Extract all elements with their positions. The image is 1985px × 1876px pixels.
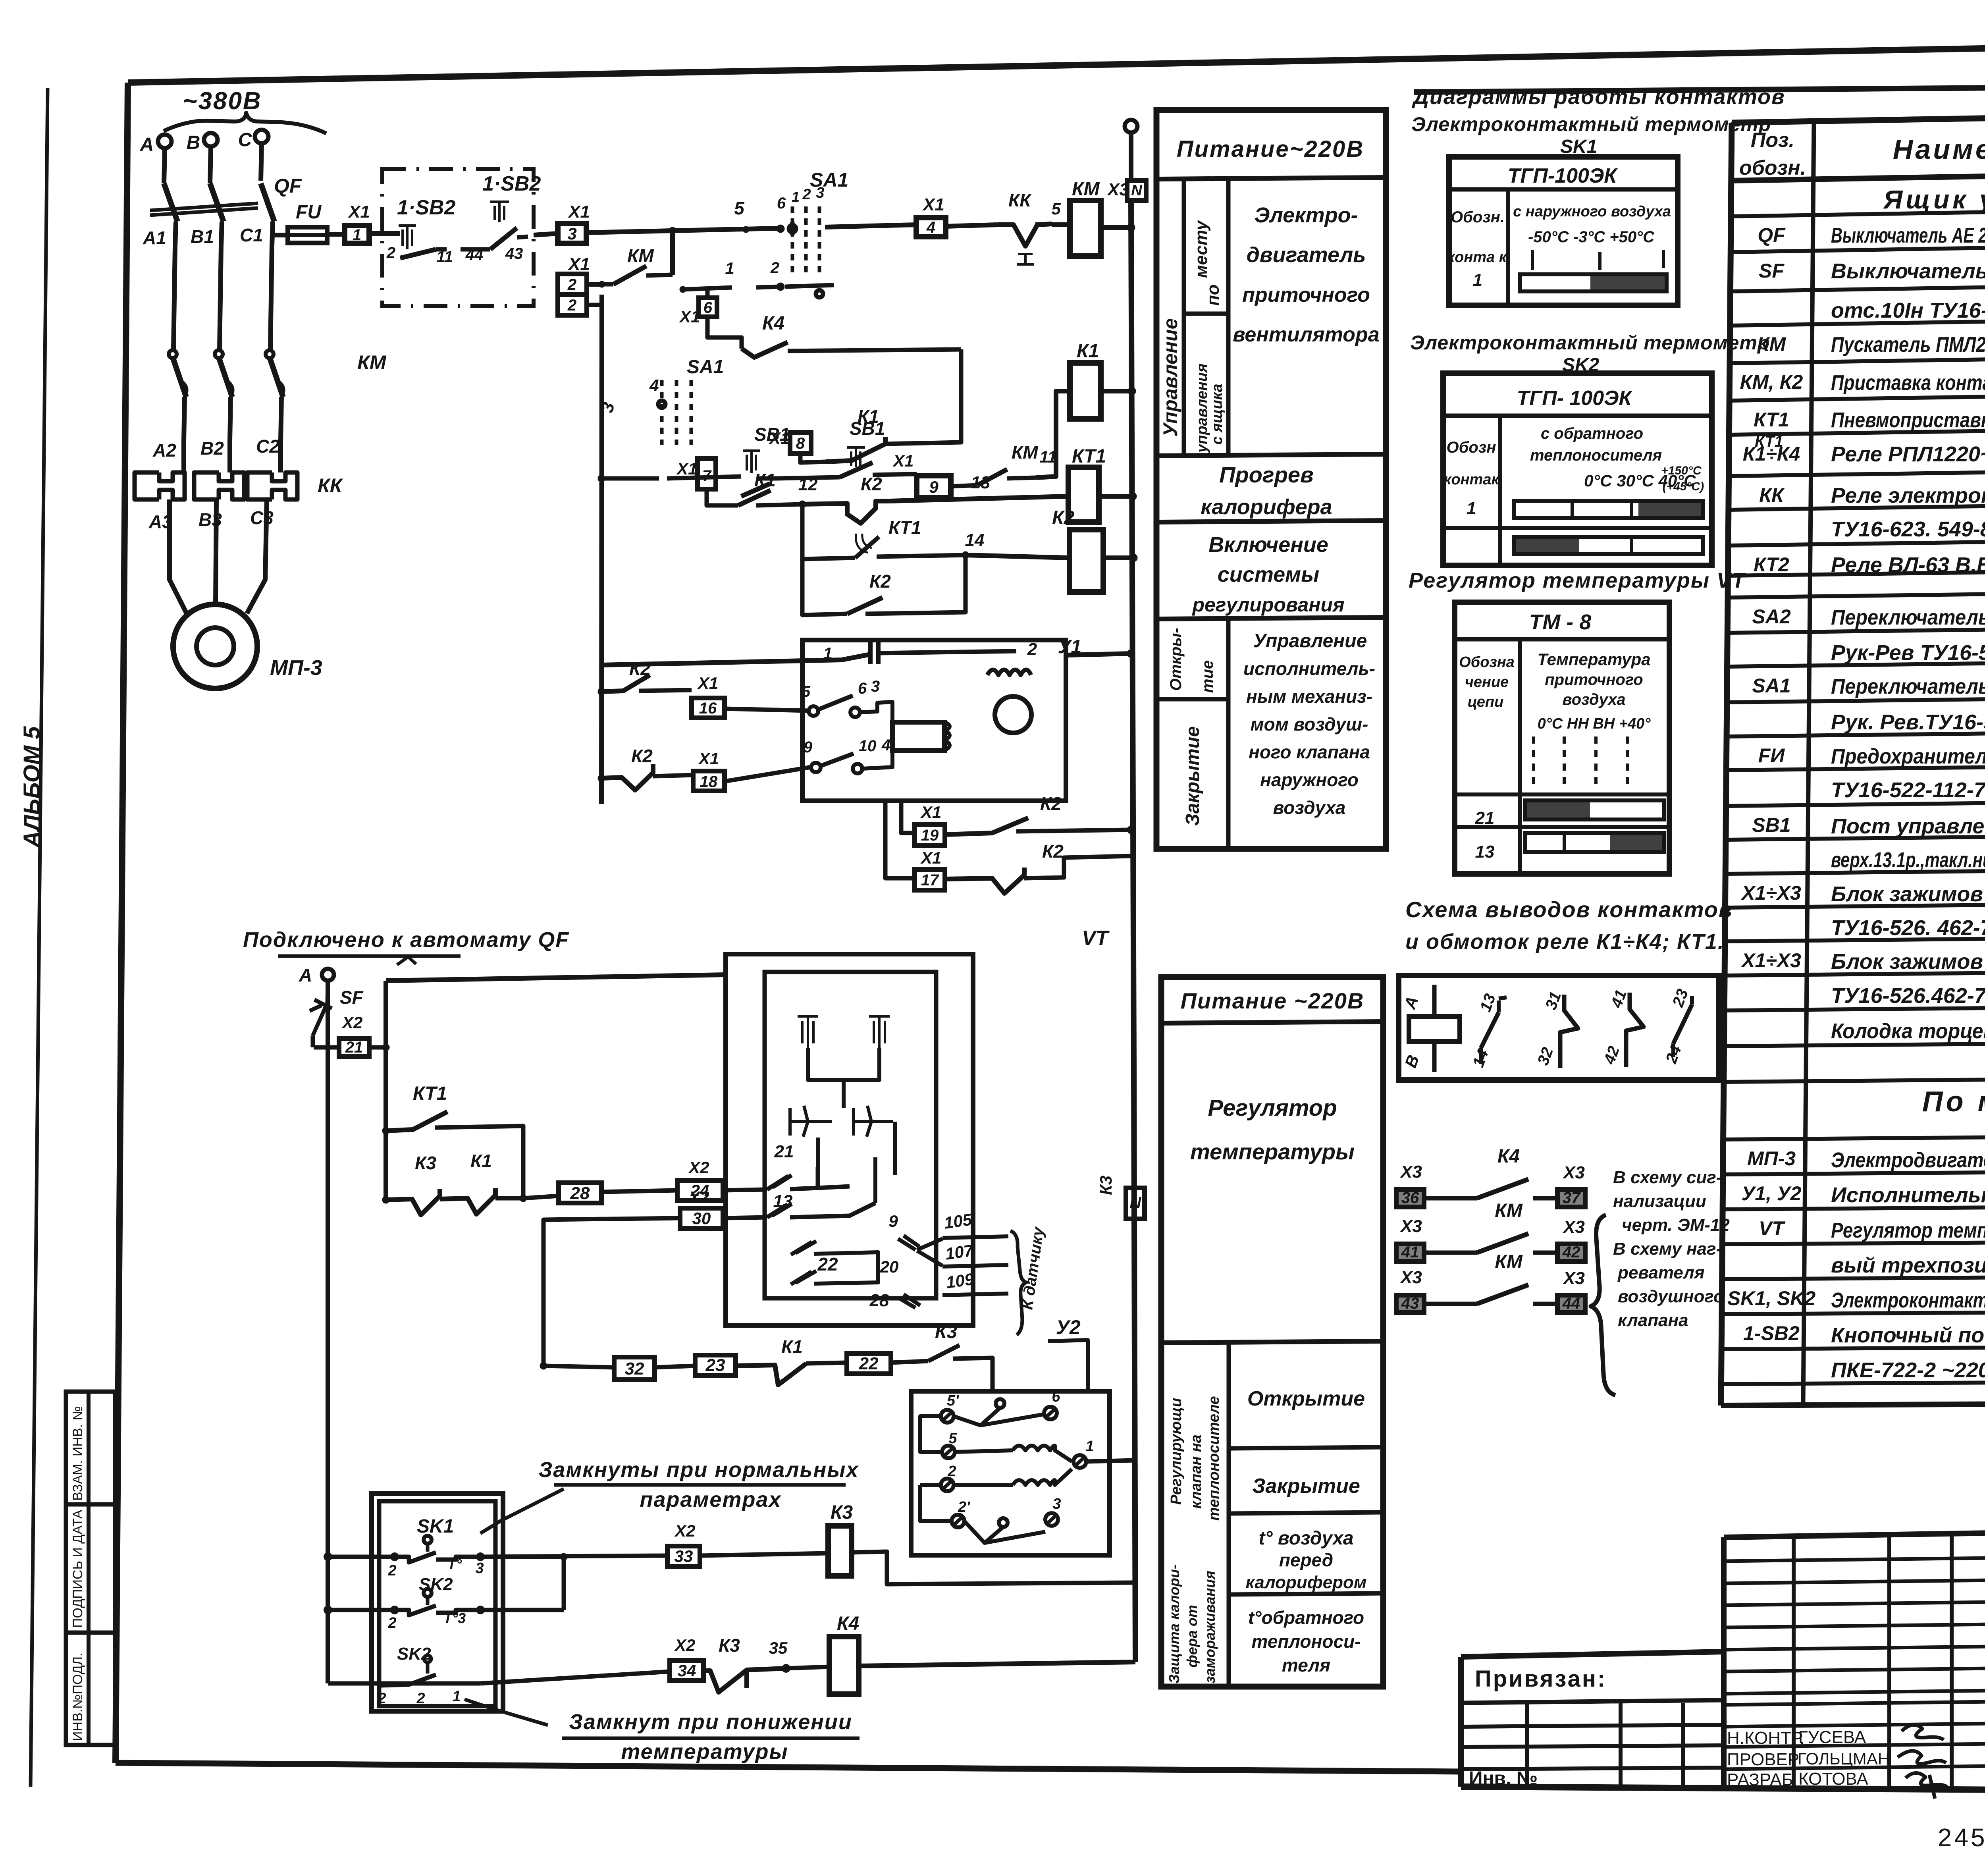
wire FU to X1-1 xyxy=(327,232,345,237)
ft2 header питание xyxy=(1161,1022,1383,1023)
KK heater 1 xyxy=(135,472,185,499)
svg-text:Пневмоприставка ПВЛ110ЧТУ16-52: Пневмоприставка ПВЛ110ЧТУ16-526.437-78 xyxy=(1831,408,1985,432)
N bus lower vertical xyxy=(1134,1068,1135,1662)
svg-text:2: 2 xyxy=(802,186,811,203)
SA1 upper dashed poles xyxy=(791,206,794,278)
ft1 внутренние колонки xyxy=(1182,179,1186,456)
svg-text:К1: К1 xyxy=(754,470,776,490)
svg-text:ТУ16-526. 462-79: ТУ16-526. 462-79 xyxy=(1831,916,1985,940)
svg-text:ным механиз-: ным механиз- xyxy=(1246,686,1372,707)
frame border top xyxy=(128,38,1985,83)
svg-text:КТ1: КТ1 xyxy=(1754,409,1789,431)
QF pole blade 1 xyxy=(164,183,177,222)
svg-text:К3: К3 xyxy=(415,1153,436,1173)
KM pole 2 xyxy=(215,350,223,358)
svg-text:ТУ16-526.462-79: ТУ16-526.462-79 xyxy=(1831,984,1985,1008)
svg-text:Колодка торцевая КТ5УТУ16-526.: Колодка торцевая КТ5УТУ16-526.462-79 xyxy=(1831,1019,1985,1043)
svg-text:X1: X1 xyxy=(676,459,697,478)
TM8 row 21 xyxy=(1455,792,1669,796)
svg-text:Электроконтактный термометр ТГ: Электроконтактный термометр ТГП-100эк xyxy=(1831,1288,1985,1312)
stamp box ИНВ.№ПОДЛ xyxy=(66,1633,115,1745)
svg-text:Температура: Температура xyxy=(1537,650,1650,669)
svg-text:ПРОВЕР: ПРОВЕР xyxy=(1727,1750,1799,1769)
wire and contact xyxy=(1424,1251,1477,1255)
start button SB2 (NO push) xyxy=(490,202,509,222)
svg-text:У2: У2 xyxy=(1056,1316,1081,1338)
title annex columns xyxy=(1525,1703,1529,1787)
wire SK2 bottom row to X2-34 xyxy=(328,1681,480,1686)
SA1L pole 1667 xyxy=(660,380,664,445)
svg-text:В2: В2 xyxy=(200,438,224,459)
svg-text:КК: КК xyxy=(318,474,343,497)
svg-text:Диаграммы работы контактов: Диаграммы работы контактов xyxy=(1412,85,1785,109)
KM pole 3 xyxy=(266,350,274,358)
svg-text:X1÷X3: X1÷X3 xyxy=(1740,949,1801,972)
wire phase C mid xyxy=(270,246,272,349)
Y1 switch 5-6 xyxy=(809,706,818,716)
svg-text:1: 1 xyxy=(452,1688,461,1705)
svg-text:43: 43 xyxy=(505,245,523,262)
svg-text:наружного: наружного xyxy=(1260,769,1359,790)
svg-text:8: 8 xyxy=(796,435,805,452)
box 22 xyxy=(806,1363,847,1363)
svg-text:А2: А2 xyxy=(152,440,176,461)
svg-text:К1: К1 xyxy=(470,1151,492,1171)
SA1L pole 1704 xyxy=(675,380,678,445)
Y2 winding 1 xyxy=(955,1446,1072,1461)
svg-text:42: 42 xyxy=(1562,1244,1580,1261)
svg-text:t° воздуха: t° воздуха xyxy=(1258,1528,1353,1549)
K3 coil to N bus xyxy=(852,1552,1135,1584)
svg-text:2: 2 xyxy=(1027,640,1037,659)
Y1 bottom branch to X1-19 xyxy=(901,801,915,833)
node and riser x=972 xyxy=(369,1045,386,1050)
stamp box ВЗАМ.ИНВ.№ xyxy=(66,1392,115,1504)
svg-text:В схему наг-: В схему наг- xyxy=(1613,1239,1722,1259)
leader line to SK box xyxy=(480,1489,564,1533)
wire phase B lower xyxy=(216,499,216,605)
svg-text:приточного: приточного xyxy=(1545,671,1643,688)
svg-text:КМ: КМ xyxy=(1072,179,1100,200)
frame border bottom left part xyxy=(116,1763,1462,1772)
svg-text:воздуха: воздуха xyxy=(1563,691,1626,708)
svg-text:32: 32 xyxy=(625,1359,644,1379)
svg-text:SK1, SK2: SK1, SK2 xyxy=(1727,1287,1816,1309)
svg-text:КТ1: КТ1 xyxy=(1755,433,1783,450)
ft2 left column xyxy=(1227,1343,1231,1687)
VT outer block xyxy=(726,954,973,1325)
svg-text:Откры-: Откры- xyxy=(1167,628,1185,691)
SK1 scale ticks xyxy=(1531,250,1534,270)
box 32 xyxy=(614,1357,655,1380)
svg-text:калорифера: калорифера xyxy=(1201,495,1332,519)
svg-text:МП-3: МП-3 xyxy=(1747,1147,1796,1170)
left bus A down to SK rows xyxy=(326,981,330,1683)
SK2 contact mid xyxy=(391,1607,398,1613)
svg-text:N: N xyxy=(1131,182,1143,199)
VT inner block xyxy=(765,972,936,1298)
title block signature columns xyxy=(1792,1537,1796,1787)
svg-text:22: 22 xyxy=(859,1354,879,1373)
ft1 Включение системы регулирования xyxy=(1156,617,1386,619)
wire X1-6 to K4 xyxy=(707,317,742,349)
svg-text:2: 2 xyxy=(770,259,779,277)
diagram box SK2 xyxy=(1443,373,1712,565)
svg-text:АЛЬБОМ 5: АЛЬБОМ 5 xyxy=(19,726,45,848)
svg-text:температуры: температуры xyxy=(1190,1139,1355,1164)
svg-text:Кнопочный пост управления: Кнопочный пост управления xyxy=(1831,1323,1985,1347)
svg-text:В1: В1 xyxy=(191,226,214,247)
wire X1-1 to button box xyxy=(369,231,400,236)
SK2 mid out riser xyxy=(480,1608,564,1612)
node after X1-3 xyxy=(586,231,673,233)
wire 14 to K2 coil xyxy=(966,555,1070,558)
svg-text:ТМ - 8: ТМ - 8 xyxy=(1529,610,1592,634)
svg-text:37: 37 xyxy=(1563,1189,1581,1207)
wire SK1 row to X2-33 to K3 coil xyxy=(480,1556,667,1557)
svg-text:Исполнительный механизм МЭО: Исполнительный механизм МЭО xyxy=(1831,1183,1985,1207)
svg-text:теплоносителя: теплоносителя xyxy=(1530,447,1662,464)
svg-text:Закрытие: Закрытие xyxy=(1182,726,1203,826)
function table 2 outline xyxy=(1161,977,1383,1687)
svg-text:тие: тие xyxy=(1199,660,1216,693)
svg-text:~380В: ~380В xyxy=(183,87,262,115)
long wire to VT top xyxy=(386,975,726,981)
VT internal links xyxy=(808,1048,879,1167)
svg-text:1: 1 xyxy=(792,189,800,205)
wire C1 to FU xyxy=(270,233,288,237)
svg-text:9: 9 xyxy=(804,738,813,756)
sheet margin line left xyxy=(31,88,48,1787)
svg-text:Блок зажимов Б324-4.0П25-В/В У: Блок зажимов Б324-4.0П25-В/В У3-5 xyxy=(1831,882,1985,906)
wire box to X1-3 xyxy=(534,233,558,235)
svg-text:24582-05: 24582-05 xyxy=(1938,1823,1985,1852)
svg-text:Электроконтактный термометр: Электроконтактный термометр xyxy=(1410,332,1770,354)
svg-text:109: 109 xyxy=(945,1269,975,1292)
svg-text:21: 21 xyxy=(1475,808,1495,828)
actuator Y1 block xyxy=(802,640,1066,801)
box 28 xyxy=(559,1183,601,1203)
svg-text:6: 6 xyxy=(703,299,713,316)
wire and contact xyxy=(1424,1196,1477,1201)
svg-text:5: 5 xyxy=(734,198,745,218)
svg-text:Наименование: Наименование xyxy=(1893,134,1985,165)
svg-text:N: N xyxy=(1130,1194,1142,1211)
parts table outer and columns xyxy=(1721,123,1732,1406)
svg-text:воздуха: воздуха xyxy=(1273,797,1346,818)
svg-text:20: 20 xyxy=(880,1257,899,1276)
svg-text:SB1: SB1 xyxy=(1752,814,1790,836)
svg-text:35: 35 xyxy=(769,1639,788,1657)
svg-text:Прогрев: Прогрев xyxy=(1219,462,1314,487)
parts table top line xyxy=(1732,109,1985,123)
stop button 1-SB2 (NC push) xyxy=(399,226,416,249)
svg-text:В схему сиг-: В схему сиг- xyxy=(1613,1168,1722,1187)
svg-text:X2: X2 xyxy=(674,1636,695,1654)
svg-text:Переключатель ПКУ3-12с-У3.Схем: Переключатель ПКУ3-12с-У3.Схема 2001 xyxy=(1831,675,1985,698)
svg-text:К1: К1 xyxy=(858,406,879,427)
svg-text:6: 6 xyxy=(1052,1388,1060,1405)
svg-text:РАЗРАБ: РАЗРАБ xyxy=(1727,1770,1793,1789)
branch to X1-17 xyxy=(885,801,915,878)
svg-text:13: 13 xyxy=(971,473,991,492)
box 23 xyxy=(655,1366,695,1367)
Y2 switch top xyxy=(996,1399,1004,1408)
svg-text:с обратного: с обратного xyxy=(1541,425,1643,442)
svg-text:2: 2 xyxy=(377,1690,386,1707)
svg-text:2: 2 xyxy=(567,276,576,293)
svg-text:Т°3: Т°3 xyxy=(443,1610,466,1626)
svg-text:К4: К4 xyxy=(1497,1146,1520,1167)
K2 coil to N xyxy=(1103,555,1133,560)
wire phase B upper xyxy=(210,147,211,183)
svg-text:КМ: КМ xyxy=(1495,1251,1523,1273)
svg-text:КТ1: КТ1 xyxy=(1072,446,1106,467)
title block main outline xyxy=(1721,1537,1727,1787)
svg-text:Электро-: Электро- xyxy=(1254,203,1358,227)
Y2 left jumpers xyxy=(920,1416,952,1521)
svg-text:К4: К4 xyxy=(837,1613,859,1634)
svg-text:У1, У2: У1, У2 xyxy=(1741,1182,1801,1205)
ft2 t воздуха cell xyxy=(1229,1593,1383,1595)
svg-text:фера от: фера от xyxy=(1184,1605,1200,1668)
wire phase A mid xyxy=(173,246,175,349)
svg-text:КТ1: КТ1 xyxy=(413,1083,447,1104)
svg-text:отс.10Iн ТУ16-522.140-74: отс.10Iн ТУ16-522.140-74 xyxy=(1831,299,1985,322)
svg-text:Блок зажимов Б324-4.0П25-В/ВУ3: Блок зажимов Б324-4.0П25-В/ВУ3-10 xyxy=(1831,950,1985,974)
circuit 1 stub xyxy=(683,287,732,289)
svg-text:теля: теля xyxy=(1282,1655,1330,1675)
svg-text:С3: С3 xyxy=(250,507,274,528)
curly brace xyxy=(1591,1215,1615,1395)
svg-text:3: 3 xyxy=(475,1560,484,1577)
title block signature row lines xyxy=(1724,1558,1985,1561)
svg-text:41: 41 xyxy=(1401,1244,1419,1261)
svg-text:Пост управления ПКЕ-122-2У3 то: Пост управления ПКЕ-122-2У3 толк. xyxy=(1831,814,1985,838)
Y2 block xyxy=(911,1391,1110,1555)
SK1 contact xyxy=(391,1554,398,1560)
K1 coil to N bus xyxy=(1101,389,1132,393)
parts table row lines xyxy=(1731,167,1985,181)
svg-text:X1: X1 xyxy=(567,255,590,274)
svg-text:Реле электротепловое РТЛ 10160: Реле электротепловое РТЛ 101604 xyxy=(1831,484,1985,507)
svg-text:1: 1 xyxy=(1467,499,1476,518)
SA1L pole 1741 xyxy=(690,380,693,445)
svg-text:вентилятора: вентилятора xyxy=(1233,323,1379,346)
svg-text:Реле РПЛ1220~220В ТУ16-523.554: Реле РПЛ1220~220В ТУ16-523.554-78 xyxy=(1831,442,1985,466)
svg-text:параметрах: параметрах xyxy=(640,1488,781,1512)
wire to KM coil xyxy=(1052,222,1070,227)
svg-text:4: 4 xyxy=(926,219,935,236)
Y1 top feed wire from bus3 xyxy=(601,654,870,665)
svg-text:X2: X2 xyxy=(341,1013,362,1032)
svg-text:вый трехпозиционным ТМ-8 0÷40: вый трехпозиционным ТМ-8 0÷40°с xyxy=(1831,1253,1985,1277)
svg-text:ВЗАМ. ИНВ. №: ВЗАМ. ИНВ. № xyxy=(70,1406,85,1501)
VT transistor symbols xyxy=(790,1106,832,1137)
svg-text:Регулятор: Регулятор xyxy=(1208,1095,1337,1121)
svg-text:X1: X1 xyxy=(920,848,941,867)
dashed box 1-SB2 remote post xyxy=(382,169,534,306)
svg-text:X3: X3 xyxy=(1399,1268,1422,1287)
svg-text:ПКЕ-722-2 ~220В, 50ГЦ.: ПКЕ-722-2 ~220В, 50ГЦ. xyxy=(1831,1358,1985,1382)
svg-text:клапан на: клапан на xyxy=(1188,1434,1204,1509)
diagram box SK1 xyxy=(1449,157,1678,305)
svg-text:1·SB2: 1·SB2 xyxy=(397,196,455,219)
svg-text:мом воздуш-: мом воздуш- xyxy=(1251,714,1368,735)
svg-text:Электродвигатель 4А71А4 0.55кВ: Электродвигатель 4А71А4 0.55кВт.~380В xyxy=(1831,1148,1985,1172)
svg-text:28: 28 xyxy=(570,1184,590,1203)
wire circuit 5 to SA1 xyxy=(673,228,779,231)
svg-text:2: 2 xyxy=(387,1562,396,1579)
svg-text:нализации: нализации xyxy=(1613,1192,1706,1211)
svg-text:-50°C -3°C +50°C: -50°C -3°C +50°C xyxy=(1528,228,1655,246)
svg-text:Управление: Управление xyxy=(1159,318,1181,437)
K4 coil to N bus xyxy=(859,1662,1135,1666)
svg-text:ИНВ.№ПОДЛ.: ИНВ.№ПОДЛ. xyxy=(70,1652,85,1741)
svg-text:С2: С2 xyxy=(256,436,279,457)
svg-text:Регулирующи: Регулирующи xyxy=(1168,1398,1185,1505)
diagram box TM-8 xyxy=(1455,602,1669,874)
svg-text:регулирования: регулирования xyxy=(1191,594,1344,616)
svg-text:7: 7 xyxy=(702,467,712,485)
svg-text:X1: X1 xyxy=(892,451,913,470)
svg-text:VT: VT xyxy=(1759,1217,1786,1240)
svg-text:чение: чение xyxy=(1465,674,1509,690)
svg-text:С: С xyxy=(238,129,252,150)
svg-text:4: 4 xyxy=(881,737,890,754)
svg-text:замораживания: замораживания xyxy=(1202,1571,1218,1683)
svg-text:Выключатель ВА 14-2614 Iр=1.: Выключатель ВА 14-2614 Iр=1.6А xyxy=(1831,259,1985,283)
wire X1-7 down and K1 contact xyxy=(707,489,738,505)
wire X1-2 left to frame? none; wire right to KM aux xyxy=(587,282,602,287)
svg-text:44: 44 xyxy=(465,246,484,264)
QF pole blade 3 xyxy=(261,183,274,222)
svg-text:23: 23 xyxy=(705,1355,725,1375)
svg-text:6: 6 xyxy=(777,195,786,212)
svg-text:черт. ЭМ-12: черт. ЭМ-12 xyxy=(1622,1215,1730,1235)
svg-text:системы: системы xyxy=(1218,563,1319,586)
svg-text:Реле ВЛ-63 В.В. 0,3-3 мин~220В: Реле ВЛ-63 В.В. 0,3-3 мин~220В. xyxy=(1831,553,1985,577)
svg-text:Регулятор температуры полупров: Регулятор температуры полупроводнико xyxy=(1831,1219,1985,1242)
svg-text:К2: К2 xyxy=(1052,507,1075,528)
title block bottom xyxy=(1461,1787,1985,1793)
svg-text:X2: X2 xyxy=(688,1158,709,1177)
svg-text:19: 19 xyxy=(921,827,939,844)
svg-text:Т°: Т° xyxy=(447,1556,462,1572)
svg-text:месту: месту xyxy=(1191,220,1211,278)
svg-text:1: 1 xyxy=(725,259,734,278)
svg-text:21: 21 xyxy=(774,1142,794,1161)
svg-text:2: 2 xyxy=(387,1615,396,1631)
svg-text:двигатель: двигатель xyxy=(1247,243,1366,267)
svg-text:5: 5 xyxy=(1051,199,1061,218)
svg-text:ПОДПИСЬ И ДАТА: ПОДПИСЬ И ДАТА xyxy=(70,1510,85,1628)
gear box with scalloped edge xyxy=(892,722,944,750)
svg-text:КМ, К2: КМ, К2 xyxy=(1740,371,1803,393)
svg-text:2: 2 xyxy=(416,1690,425,1707)
svg-text:18: 18 xyxy=(700,773,718,791)
wire X1-4 to KK contact xyxy=(946,225,998,226)
svg-text:+150°C: +150°C xyxy=(1661,464,1702,477)
svg-text:VT: VT xyxy=(1082,927,1110,950)
vertical to node 5 wire xyxy=(670,231,675,275)
svg-text:ТГП- 100ЭК: ТГП- 100ЭК xyxy=(1517,387,1633,410)
svg-text:обозн.: обозн. xyxy=(1739,156,1806,179)
Y2 switch bottom xyxy=(999,1518,1008,1527)
svg-text:33: 33 xyxy=(675,1547,693,1566)
svg-text:Схема выводов контактов: Схема выводов контактов xyxy=(1405,897,1733,922)
svg-text:9: 9 xyxy=(929,478,939,496)
svg-text:ГУСЕВА: ГУСЕВА xyxy=(1798,1728,1866,1747)
svg-text:X1÷X3: X1÷X3 xyxy=(1740,882,1801,904)
svg-text:Рук. Рев.ТУ16-526.047-74: Рук. Рев.ТУ16-526.047-74 xyxy=(1831,710,1985,734)
wire bus to 32 xyxy=(543,1366,614,1367)
svg-text:X3: X3 xyxy=(1562,1163,1585,1182)
svg-text:исполнитель-: исполнитель- xyxy=(1243,658,1375,679)
ft2 Открытие cell xyxy=(1229,1447,1383,1448)
svg-text:34: 34 xyxy=(678,1661,696,1680)
svg-text:Включение: Включение xyxy=(1208,533,1328,557)
SK2 bottom contact xyxy=(381,1675,457,1685)
ft1 Открытие/Закрытие column xyxy=(1226,619,1231,849)
svg-text:X1: X1 xyxy=(567,202,590,222)
svg-text:SF: SF xyxy=(340,987,364,1008)
svg-text:С1: С1 xyxy=(240,225,263,245)
wire to X2-24 xyxy=(601,1190,677,1192)
svg-text:X1: X1 xyxy=(697,674,718,692)
N bus vertical xyxy=(1131,201,1134,1068)
svg-text:22: 22 xyxy=(817,1254,838,1274)
wires through KK xyxy=(181,439,186,472)
svg-text:t°обратного: t°обратного xyxy=(1248,1607,1364,1628)
signature squiggles xyxy=(1902,1725,1944,1740)
svg-text:Рук-Рев ТУ16-526.047. 74: Рук-Рев ТУ16-526.047. 74 xyxy=(1831,641,1985,665)
ft2 line under регулятор xyxy=(1161,1341,1383,1343)
svg-text:Замкнуты при нормальных: Замкнуты при нормальных xyxy=(539,1458,859,1482)
svg-text:FU: FU xyxy=(296,202,322,223)
svg-text:ревателя: ревателя xyxy=(1617,1263,1705,1282)
svg-text:ТГП-100ЭК: ТГП-100ЭК xyxy=(1508,164,1618,187)
svg-text:X3: X3 xyxy=(1562,1217,1585,1237)
svg-text:Управление: Управление xyxy=(1253,630,1367,652)
svg-text:конта к: конта к xyxy=(1447,249,1507,266)
svg-text:К1: К1 xyxy=(1077,341,1099,362)
svg-text:КТ1: КТ1 xyxy=(888,517,921,538)
svg-text:и обмоток реле К1÷К4; КТ1.: и обмоток реле К1÷К4; КТ1. xyxy=(1405,930,1725,954)
wire X1-8 and K1 aux contact xyxy=(800,453,826,463)
svg-text:КМ: КМ xyxy=(1495,1200,1523,1221)
leader dashed to box bottom xyxy=(464,1699,548,1725)
svg-text:5: 5 xyxy=(802,683,811,700)
wire Y1-2 to right bus xyxy=(1066,654,1131,655)
Y1 switch 9-10 xyxy=(811,763,821,772)
KK heater 3 xyxy=(247,472,297,499)
svg-text:3: 3 xyxy=(816,185,824,201)
svg-text:теплоноси-: теплоноси- xyxy=(1252,1631,1361,1652)
svg-text:Регулятор температуры VT: Регулятор температуры VT xyxy=(1409,569,1746,592)
wire X1-2p to bus xyxy=(587,303,602,307)
svg-text:X2: X2 xyxy=(674,1521,695,1540)
wire phase B mid xyxy=(220,246,221,349)
svg-text:К3: К3 xyxy=(719,1635,740,1656)
svg-text:А: А xyxy=(299,965,312,985)
svg-text:ТУ16-522-112-74: ТУ16-522-112-74 xyxy=(1831,778,1985,802)
svg-text:30: 30 xyxy=(692,1209,711,1228)
svg-text:КМ: КМ xyxy=(627,245,654,266)
svg-text:калорифером: калорифером xyxy=(1246,1573,1367,1592)
svg-text:SF: SF xyxy=(1759,260,1785,282)
svg-text:ГОЛЬЦМАН: ГОЛЬЦМАН xyxy=(1798,1749,1890,1768)
